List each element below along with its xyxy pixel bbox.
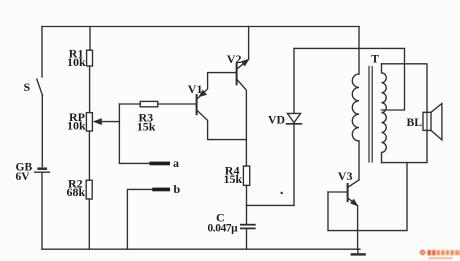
scan speck [281,192,283,194]
wire below C [246,229,248,250]
svg-text:S: S [24,80,31,94]
diode VD [293,48,295,113]
svg-text:BL: BL [407,116,423,129]
terminal b [127,189,152,249]
wire resistor column [88,27,91,250]
wire left rail lower [41,172,43,249]
transistor V3 [347,184,349,201]
watermark logo [420,250,460,259]
wire top rail [42,26,359,28]
transformer T secondary coil [382,64,387,163]
ground [357,249,359,253]
svg-text:V3: V3 [338,169,353,183]
wire left rail middle [41,96,43,167]
transformer T primary coil [352,74,359,141]
svg-text:15k: 15k [224,172,243,186]
svg-text:0.047µ: 0.047µ [208,222,239,234]
speaker BL [426,112,428,130]
svg-text:V2: V2 [227,52,242,66]
svg-text:68k: 68k [67,185,86,199]
resistor R3 [140,101,158,106]
wire secondary top to speaker [382,64,428,113]
wire V3 base feedback loop [328,163,407,231]
potentiometer RP wiper [100,121,119,123]
switch S [37,79,43,96]
resistor R4 [243,166,249,185]
wire secondary bottom to speaker [382,130,428,162]
wire feedback top rail [294,48,405,110]
wire below R4 [246,185,248,224]
wire primary to V3 collector [358,141,360,180]
node a column wire [119,104,149,163]
wire R3 branch [119,103,196,105]
svg-text:T: T [371,51,379,65]
resistor R2 [86,180,92,199]
transistor V1 [196,95,198,114]
resistor R1 [87,50,93,66]
transformer T primary lead [358,27,360,75]
svg-text:10k: 10k [67,55,86,69]
capacitor C [241,224,255,226]
svg-text:a: a [173,156,179,170]
terminal a [150,162,171,166]
svg-text:V1: V1 [188,82,203,96]
svg-text:15k: 15k [137,119,156,133]
svg-text:VD: VD [268,112,285,126]
transistor V2 [236,64,238,84]
svg-text:10k: 10k [67,119,86,133]
wire left rail upper [41,27,43,78]
wire R4C junction to VD [247,204,295,206]
transformer T core [369,67,372,163]
wire bottom rail [42,248,360,250]
svg-text:b: b [174,182,181,196]
potentiometer RP [86,113,92,131]
svg-text:6V: 6V [16,171,31,183]
battery GB [39,167,46,170]
